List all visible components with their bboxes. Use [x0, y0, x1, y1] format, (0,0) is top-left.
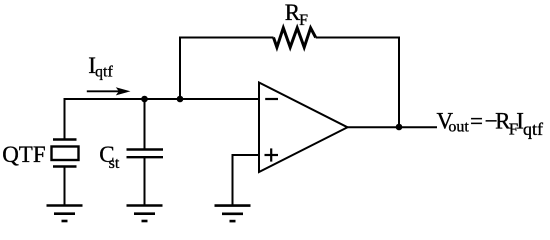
- svg-text:QTF: QTF: [2, 142, 45, 167]
